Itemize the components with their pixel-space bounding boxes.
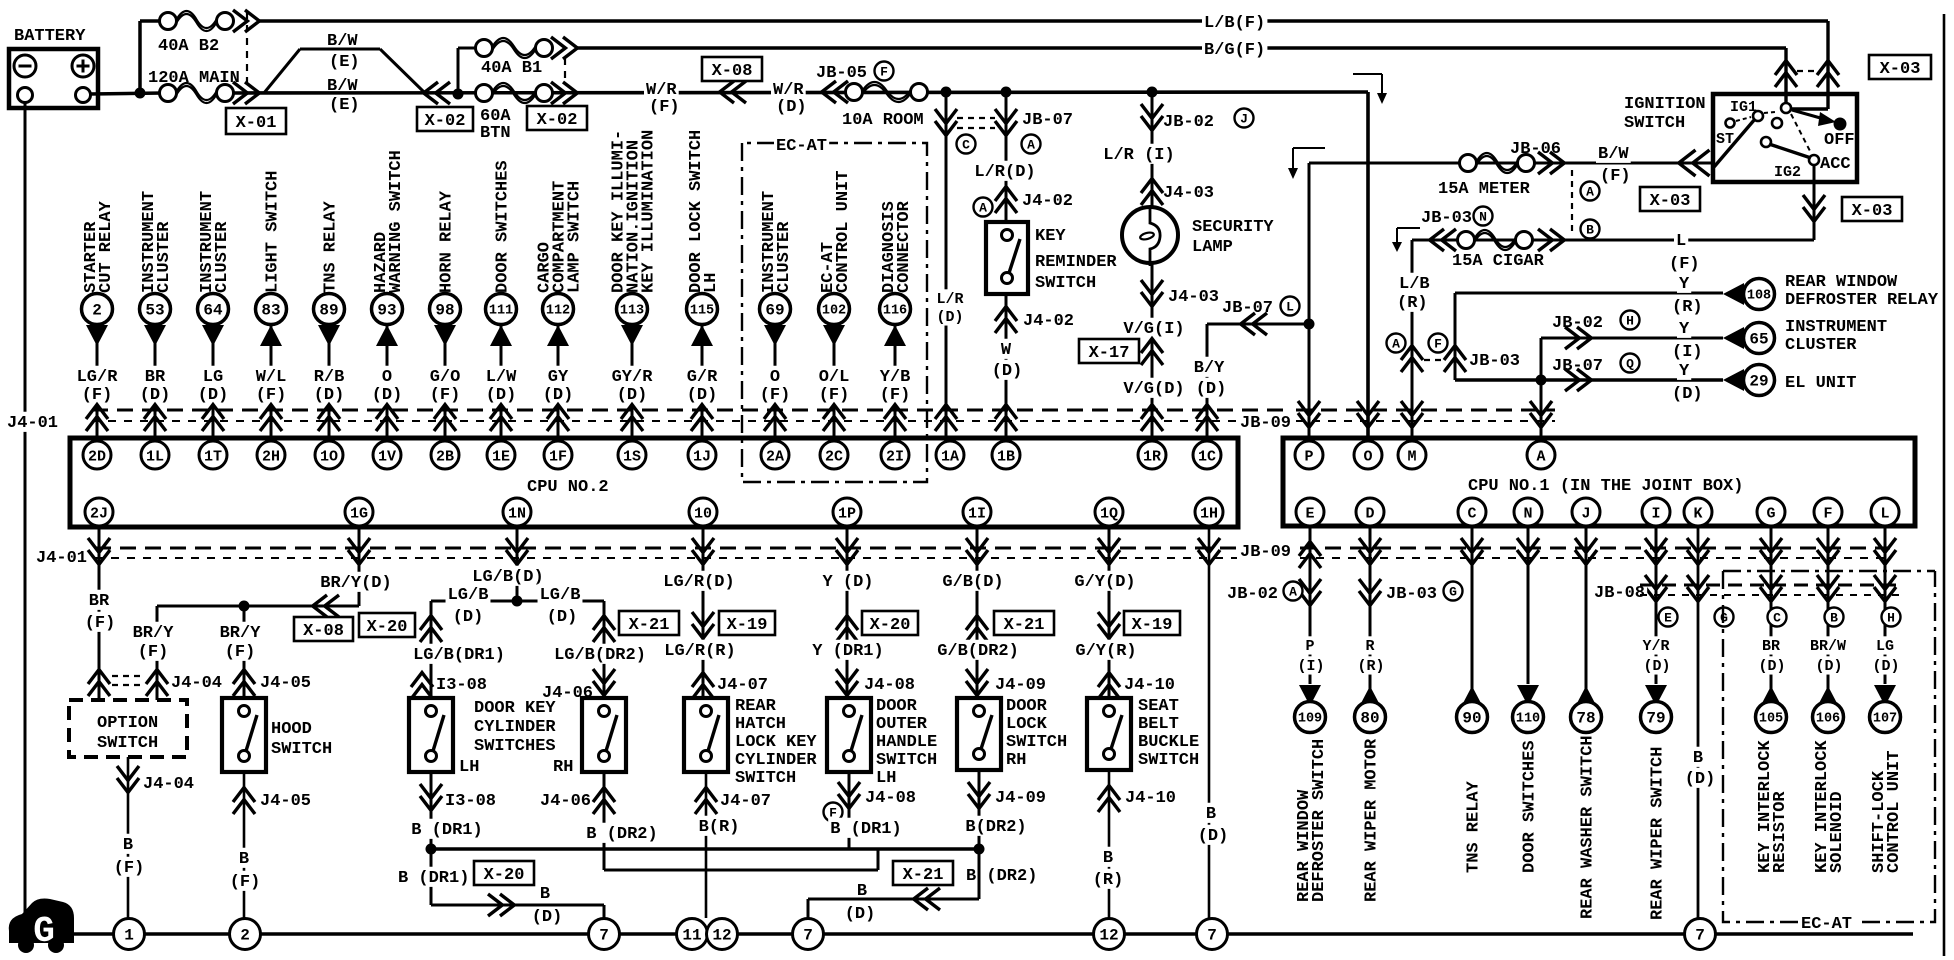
label L/B(F) bbox=[1202, 12, 1267, 32]
svg-text:BR/W: BR/W bbox=[1810, 638, 1846, 655]
connector J4-01 chevron col 116 bbox=[884, 405, 906, 419]
pin 1E CPU NO.2 bbox=[487, 441, 515, 469]
wire 1P column Y bbox=[846, 527, 849, 698]
wire 1A column bbox=[945, 92, 948, 441]
svg-text:G/Y(D): G/Y(D) bbox=[1074, 573, 1135, 592]
connector J4-01 row upper dashed bbox=[92, 409, 1290, 412]
key reminder switch bbox=[986, 222, 1028, 294]
wire column 2 bbox=[96, 324, 99, 438]
wire C column bbox=[1471, 527, 1474, 706]
label R (R) bbox=[1363, 636, 1376, 654]
wire riser A-B bbox=[877, 849, 880, 870]
ground node 7 bbox=[1197, 919, 1228, 950]
connector J4-06 chevron upper bbox=[593, 669, 615, 683]
svg-text:REAR WASHER SWITCH: REAR WASHER SWITCH bbox=[1578, 735, 1597, 919]
connector JB-07 chevron 1B bbox=[995, 109, 1017, 123]
label G/B(DR2) bbox=[935, 640, 1021, 660]
svg-text:KEY: KEY bbox=[1035, 227, 1066, 246]
connector JB-08 chevron L bbox=[1874, 575, 1896, 589]
connector J4-08 chevron lower bbox=[848, 772, 851, 849]
svg-text:B/W: B/W bbox=[1598, 145, 1629, 164]
connector JB-09 chevron bbox=[1530, 401, 1552, 415]
svg-text:80: 80 bbox=[1360, 710, 1379, 728]
connector JB-09 chevron J bbox=[1575, 538, 1597, 552]
connector JB-09 row lower dashed bbox=[1300, 547, 1890, 550]
svg-text:G/B(DR2): G/B(DR2) bbox=[937, 642, 1019, 661]
connector J4-03 chevron lower bbox=[1141, 280, 1163, 294]
connector X-21 chevrons bottom bbox=[914, 888, 928, 910]
svg-text:J4-07: J4-07 bbox=[717, 676, 768, 695]
pin I CPU NO.1 bbox=[1642, 498, 1670, 526]
connector X-02 label left bbox=[417, 107, 473, 131]
connector JB-09 chevron C bbox=[1461, 538, 1483, 552]
svg-text:CONTROL UNIT: CONTROL UNIT bbox=[834, 171, 853, 293]
svg-text:L/R(D): L/R(D) bbox=[974, 163, 1035, 182]
svg-text:1L: 1L bbox=[146, 448, 164, 465]
svg-text:(R): (R) bbox=[1397, 294, 1428, 313]
connector X-02 chevrons left bbox=[424, 82, 438, 104]
svg-text:W: W bbox=[1001, 341, 1012, 360]
svg-text:40A B2: 40A B2 bbox=[158, 37, 219, 56]
svg-text:LG/B: LG/B bbox=[540, 586, 581, 605]
svg-text:12: 12 bbox=[1099, 927, 1118, 945]
svg-text:A: A bbox=[1586, 185, 1594, 200]
pin 1I CPU NO.2 bbox=[963, 498, 991, 526]
svg-text:TNS RELAY: TNS RELAY bbox=[1464, 780, 1483, 873]
pin 1G CPU NO.2 bbox=[345, 498, 373, 526]
pin 1A CPU NO.2 bbox=[936, 441, 964, 469]
connector JB-09 chevron bbox=[1298, 401, 1320, 415]
connector X-03 chevrons ACC bbox=[1803, 195, 1825, 209]
svg-text:LG/B(DR1): LG/B(DR1) bbox=[413, 646, 505, 665]
connector JB-02 H chevrons bbox=[1565, 327, 1579, 349]
svg-text:L: L bbox=[1676, 232, 1686, 251]
svg-text:X-03: X-03 bbox=[1650, 192, 1691, 211]
ground node 7 bbox=[1685, 919, 1716, 950]
svg-text:DOOR SWITCHES: DOOR SWITCHES bbox=[493, 160, 512, 293]
svg-text:J4-09: J4-09 bbox=[995, 676, 1046, 695]
svg-text:X-21: X-21 bbox=[629, 616, 670, 635]
wire K column bbox=[1697, 527, 1700, 918]
svg-text:E: E bbox=[1664, 611, 1672, 626]
node P column JB-07 bbox=[1304, 319, 1315, 330]
wire riser JB-03 to defroster row bbox=[1454, 293, 1457, 380]
component 79 rear wiper switch bbox=[1641, 702, 1672, 733]
connector JB-03 G chevron bbox=[1359, 579, 1381, 593]
svg-text:WARNING SWITCH: WARNING SWITCH bbox=[387, 150, 406, 293]
svg-text:JB-08: JB-08 bbox=[1594, 584, 1645, 603]
EC-AT dashed box upper bbox=[742, 143, 927, 482]
svg-text:KEY ILLUMINATION: KEY ILLUMINATION bbox=[639, 130, 658, 293]
wire G column bbox=[1770, 527, 1773, 706]
svg-text:JB-03: JB-03 bbox=[1469, 352, 1520, 371]
wire option to ground bus bbox=[127, 790, 130, 918]
pin 2C CPU NO.2 bbox=[820, 441, 848, 469]
svg-text:(D): (D) bbox=[453, 608, 484, 627]
svg-text:X-01: X-01 bbox=[236, 114, 277, 133]
svg-text:X-21: X-21 bbox=[903, 866, 944, 885]
svg-text:CLUSTER: CLUSTER bbox=[213, 221, 232, 293]
connector X-21 chevron 2 bbox=[966, 616, 988, 630]
svg-text:83: 83 bbox=[261, 302, 280, 320]
pin J CPU NO.1 bbox=[1572, 498, 1600, 526]
wire column 64 bbox=[212, 324, 215, 438]
svg-text:E: E bbox=[1305, 505, 1314, 522]
connector J4-01 chevron bbox=[1141, 405, 1163, 419]
svg-text:B: B bbox=[1830, 611, 1838, 626]
svg-text:O: O bbox=[1363, 448, 1372, 465]
rear window defroster relay arrow bbox=[1723, 283, 1744, 305]
connector X-08 chevrons bbox=[720, 81, 734, 103]
connector X-19 label bbox=[719, 611, 775, 635]
pin 1T CPU NO.2 bbox=[199, 441, 227, 469]
svg-text:X-21: X-21 bbox=[1004, 616, 1045, 635]
pin 1C CPU NO.2 bbox=[1193, 441, 1221, 469]
svg-text:Y (D): Y (D) bbox=[822, 573, 873, 592]
svg-text:Y: Y bbox=[1679, 362, 1690, 381]
wire column 69 bbox=[774, 324, 777, 438]
svg-text:(F): (F) bbox=[649, 98, 680, 117]
wire 1Q column G/Y bbox=[1108, 527, 1111, 698]
connector J4-01 chevron 10 bbox=[692, 538, 714, 552]
svg-text:CPU NO.2: CPU NO.2 bbox=[527, 478, 609, 497]
connector JB-02 A chevron bbox=[1299, 579, 1321, 593]
svg-text:112: 112 bbox=[546, 304, 570, 319]
fuse 15A CIGAR bbox=[1458, 232, 1475, 249]
svg-text:X-19: X-19 bbox=[1132, 616, 1173, 635]
wire B/W(E) bypass diagonal down bbox=[380, 49, 426, 94]
svg-text:JB-09: JB-09 bbox=[1240, 414, 1291, 433]
label L (F) bbox=[1674, 230, 1688, 250]
svg-text:106: 106 bbox=[1816, 712, 1840, 727]
svg-text:EC-AT: EC-AT bbox=[776, 137, 827, 156]
wire 1B column bbox=[1005, 92, 1008, 222]
connector JB-09 chevron N bbox=[1517, 538, 1539, 552]
connector J4-01 chevron bbox=[935, 405, 957, 419]
component 90 tns relay bbox=[1457, 702, 1488, 733]
svg-text:A: A bbox=[1536, 448, 1545, 465]
connector J4-10 chevron upper bbox=[1098, 673, 1120, 687]
connector J4-01 chevron 1I bbox=[966, 538, 988, 552]
label W/R (F) bbox=[644, 79, 679, 99]
svg-text:J4-02: J4-02 bbox=[1023, 312, 1074, 331]
svg-text:DEFROSTER SWITCH: DEFROSTER SWITCH bbox=[1310, 739, 1329, 902]
connector J4-01 chevron col 64 bbox=[202, 405, 224, 419]
wire E column bbox=[1309, 527, 1312, 684]
connector JB-07 chevron 1A bbox=[935, 109, 957, 123]
pin 1O CPU NO.2 bbox=[315, 441, 343, 469]
connector J4-01 chevron col 69 bbox=[764, 405, 786, 419]
door outer handle switch LH bbox=[827, 698, 871, 772]
CPU NO.2 box bbox=[70, 438, 1238, 527]
node B DR2 junction bbox=[974, 844, 985, 855]
svg-text:79: 79 bbox=[1646, 710, 1665, 728]
connector J4-03 chevron upper bbox=[1141, 179, 1163, 193]
ground node 12 bbox=[1094, 919, 1125, 950]
component 65 instrument cluster bbox=[1744, 323, 1775, 354]
svg-text:B: B bbox=[540, 885, 550, 904]
component 107 shift-lock control unit bbox=[1870, 702, 1901, 733]
connector X-03 chevrons top bbox=[1775, 61, 1797, 75]
svg-text:X-20: X-20 bbox=[484, 866, 525, 885]
connector X-20 label 3 bbox=[474, 861, 534, 885]
svg-text:LIGHT SWITCH: LIGHT SWITCH bbox=[263, 171, 282, 293]
connector J4-01 chevron bbox=[995, 405, 1017, 419]
connector JB-09 chevron bbox=[1357, 401, 1379, 415]
svg-text:(D): (D) bbox=[1872, 658, 1899, 675]
connector J4-01 chevron col 115 bbox=[691, 405, 713, 419]
svg-text:F: F bbox=[1434, 337, 1442, 352]
svg-text:78: 78 bbox=[1576, 710, 1595, 728]
door key cylinder switch RH bbox=[582, 698, 626, 772]
svg-text:X-20: X-20 bbox=[870, 616, 911, 635]
svg-text:89: 89 bbox=[319, 302, 338, 320]
svg-text:G: G bbox=[1449, 585, 1457, 600]
pin 1F CPU NO.2 bbox=[544, 441, 572, 469]
svg-text:7: 7 bbox=[803, 927, 813, 945]
svg-text:L/B(F): L/B(F) bbox=[1204, 14, 1265, 33]
connector JB-09 chevron G bbox=[1760, 538, 1782, 552]
wire D column bbox=[1369, 527, 1372, 706]
pin 2D CPU NO.2 bbox=[83, 441, 111, 469]
connector X-03 label 3 bbox=[1640, 187, 1700, 211]
wire L column bbox=[1884, 527, 1887, 684]
svg-text:B(DR2): B(DR2) bbox=[965, 818, 1026, 837]
svg-text:INSTRUMENT: INSTRUMENT bbox=[1785, 318, 1887, 337]
connector cigar chevrons right bbox=[1538, 229, 1552, 251]
svg-text:J4-10: J4-10 bbox=[1124, 676, 1175, 695]
connector JB-08 chevron I bbox=[1645, 575, 1667, 589]
svg-text:B (DR1): B (DR1) bbox=[398, 869, 469, 888]
rear washer switch arrow bbox=[1575, 686, 1597, 707]
ignition switch contacts bbox=[1726, 119, 1735, 128]
wire column 111 bbox=[500, 324, 503, 438]
connector JB-09 chevron I bbox=[1645, 538, 1667, 552]
svg-text:F: F bbox=[880, 65, 888, 80]
node BR/Y hood junction bbox=[239, 601, 250, 612]
svg-text:(D): (D) bbox=[532, 908, 563, 927]
svg-text:BR: BR bbox=[89, 592, 110, 611]
key interlock resistor arrow bbox=[1760, 686, 1782, 707]
ground node 1 bbox=[114, 919, 145, 950]
wire J column bbox=[1585, 527, 1588, 706]
wire lock RH drop bbox=[978, 849, 981, 899]
connector J4-07 chevron upper bbox=[692, 673, 714, 687]
connector J4-05 chevron lower bbox=[243, 772, 246, 800]
svg-text:LOCK: LOCK bbox=[1006, 715, 1048, 734]
label B (DR1) bottom bbox=[396, 867, 472, 887]
svg-text:(I): (I) bbox=[1297, 658, 1324, 675]
svg-text:(I): (I) bbox=[1672, 343, 1703, 362]
svg-text:1S: 1S bbox=[623, 448, 641, 465]
connector X-19 chevron 2 bbox=[1098, 612, 1120, 626]
svg-text:HATCH: HATCH bbox=[735, 715, 786, 734]
svg-text:B (DR1): B (DR1) bbox=[411, 821, 482, 840]
wire column 93 bbox=[386, 324, 389, 438]
pin 1P CPU NO.2 bbox=[833, 498, 861, 526]
pin 1H CPU NO.2 bbox=[1195, 498, 1223, 526]
node fuse B1 junction bbox=[453, 89, 464, 100]
component 78 rear washer switch bbox=[1571, 702, 1602, 733]
wire riser top corner bbox=[140, 19, 162, 23]
svg-text:L: L bbox=[1880, 505, 1889, 522]
ignition switch box bbox=[1713, 94, 1857, 182]
wire A column bbox=[1540, 380, 1543, 441]
svg-text:H: H bbox=[1887, 611, 1895, 626]
svg-text:OUTER: OUTER bbox=[876, 715, 928, 734]
svg-text:J4-06: J4-06 bbox=[540, 792, 591, 811]
wire battery negative rail bbox=[24, 102, 27, 918]
svg-text:P: P bbox=[1305, 638, 1314, 655]
label L/R (D) 1A bbox=[934, 289, 965, 307]
svg-text:N: N bbox=[1523, 505, 1532, 522]
pin E CPU NO.1 bbox=[1296, 498, 1324, 526]
svg-text:J4-04: J4-04 bbox=[143, 775, 194, 794]
svg-text:TNS RELAY: TNS RELAY bbox=[321, 200, 340, 293]
svg-text:DOOR: DOOR bbox=[1006, 697, 1048, 716]
svg-text:(D): (D) bbox=[1685, 770, 1716, 789]
svg-text:B: B bbox=[1586, 223, 1594, 238]
wire column 89 bbox=[328, 324, 331, 438]
connector X-17 chevron bbox=[1141, 339, 1163, 353]
connector JB-09 chevron F bbox=[1817, 538, 1839, 552]
pin 2A CPU NO.2 bbox=[761, 441, 789, 469]
wire ACC to L(F) line bbox=[1813, 165, 1816, 240]
svg-text:R: R bbox=[1365, 638, 1374, 655]
connector J4-01 chevron bbox=[1196, 405, 1218, 419]
connector X-20 label 2 bbox=[862, 611, 918, 635]
wire 1G column BR/Y bbox=[358, 527, 361, 606]
connector JB-06 chevrons bbox=[1538, 152, 1552, 174]
svg-text:115: 115 bbox=[690, 304, 714, 319]
CPU NO.1 box bbox=[1283, 438, 1915, 526]
svg-text:C: C bbox=[1467, 505, 1476, 522]
svg-text:J4-09: J4-09 bbox=[995, 789, 1046, 808]
connector I3-08 chevron lower bbox=[430, 772, 433, 849]
svg-text:(D): (D) bbox=[1672, 385, 1703, 404]
fuse 40A B1 bbox=[476, 40, 493, 57]
connector J4-01 chevron col 112 bbox=[547, 405, 569, 419]
component 108 rear window defroster relay bbox=[1744, 279, 1775, 310]
ground node 7 bbox=[793, 919, 824, 950]
svg-text:113: 113 bbox=[620, 304, 644, 319]
svg-text:L: L bbox=[1286, 300, 1294, 315]
svg-text:120A MAIN: 120A MAIN bbox=[148, 69, 240, 88]
wire P column bbox=[1308, 163, 1311, 441]
svg-text:(R): (R) bbox=[1357, 658, 1384, 675]
label Y (DR1) bbox=[810, 640, 886, 660]
svg-text:111: 111 bbox=[489, 304, 513, 319]
svg-text:1R: 1R bbox=[1143, 448, 1161, 465]
svg-text:B: B bbox=[1693, 749, 1703, 768]
svg-text:105: 105 bbox=[1759, 712, 1783, 727]
connector X-20 label bbox=[359, 613, 415, 637]
wire JB-02 H row bbox=[1540, 338, 1543, 380]
wire B/W(E) bypass diagonal up bbox=[264, 49, 300, 93]
svg-text:I: I bbox=[1651, 505, 1660, 522]
svg-text:Y: Y bbox=[1679, 320, 1690, 339]
svg-text:LG: LG bbox=[1876, 638, 1894, 655]
rear wiper switch arrow bbox=[1645, 685, 1667, 706]
wire B/W meter line bbox=[1309, 162, 1713, 165]
label W/R (D) bbox=[771, 79, 806, 99]
label B (R) seat bbox=[1101, 847, 1115, 867]
connector X-21 label 2 bbox=[994, 611, 1054, 635]
svg-text:RH: RH bbox=[1006, 751, 1026, 770]
pin O CPU NO.1 bbox=[1354, 441, 1382, 469]
wire bus corner down to O pin bbox=[1366, 92, 1370, 441]
connector X-02 chevrons right bbox=[551, 37, 565, 59]
connector X-21 label bbox=[619, 611, 679, 635]
svg-text:1A: 1A bbox=[941, 448, 959, 465]
wire hood to ground bus bbox=[243, 800, 246, 918]
main bus wire from battery to right bbox=[234, 92, 1368, 93]
wire handle drop bbox=[848, 840, 851, 849]
svg-text:A: A bbox=[1027, 138, 1035, 153]
svg-text:JB-02: JB-02 bbox=[1227, 585, 1278, 604]
svg-text:116: 116 bbox=[883, 304, 907, 319]
svg-text:2B: 2B bbox=[436, 448, 454, 465]
svg-text:X-17: X-17 bbox=[1089, 344, 1130, 363]
svg-text:OFF: OFF bbox=[1824, 131, 1855, 150]
pin 1J CPU NO.2 bbox=[688, 441, 716, 469]
label LG (D) bbox=[1874, 636, 1896, 654]
wire LH drop bbox=[430, 849, 433, 905]
wire riser to 40A B1 bbox=[457, 48, 460, 94]
svg-text:2: 2 bbox=[92, 302, 102, 320]
pin P CPU NO.1 bbox=[1295, 441, 1323, 469]
svg-text:Q: Q bbox=[1626, 357, 1634, 372]
svg-text:1G: 1G bbox=[350, 505, 368, 522]
label V/G(D) bbox=[1121, 378, 1186, 398]
label B(R) hatch bbox=[697, 816, 742, 836]
svg-text:2A: 2A bbox=[766, 448, 784, 465]
node bus 1A bbox=[941, 87, 952, 98]
svg-text:J4-03: J4-03 bbox=[1163, 184, 1214, 203]
pin 1R CPU NO.2 bbox=[1138, 441, 1166, 469]
option switch dashed box bbox=[69, 700, 187, 757]
svg-text:7: 7 bbox=[599, 927, 609, 945]
connector J4-01 chevron col 53 bbox=[144, 405, 166, 419]
svg-text:HORN RELAY: HORN RELAY bbox=[437, 190, 456, 293]
svg-text:I3-08: I3-08 bbox=[445, 792, 496, 811]
svg-text:(D): (D) bbox=[1758, 658, 1785, 675]
svg-text:102: 102 bbox=[822, 304, 846, 319]
svg-text:B/W: B/W bbox=[327, 77, 358, 96]
svg-text:11: 11 bbox=[682, 927, 701, 945]
svg-text:BR: BR bbox=[1762, 638, 1780, 655]
wire I column bbox=[1655, 527, 1658, 684]
component 110 door switches bbox=[1513, 702, 1544, 733]
node battery junction bbox=[135, 88, 146, 99]
svg-text:L/R: L/R bbox=[936, 291, 963, 308]
connector J4-10 chevron lower bbox=[1108, 770, 1111, 918]
connector X-02 label right bbox=[527, 106, 587, 130]
connector A/B dashed link bbox=[1571, 170, 1573, 232]
wire column 83 bbox=[270, 324, 273, 438]
pin F CPU NO.1 bbox=[1814, 498, 1842, 526]
connector chevron 2J to option bbox=[88, 670, 110, 684]
svg-text:REAR WINDOW: REAR WINDOW bbox=[1785, 273, 1898, 292]
svg-text:B: B bbox=[239, 850, 249, 869]
label B (DR2) RH bbox=[584, 823, 660, 843]
svg-text:B/W: B/W bbox=[327, 32, 358, 51]
pin 2J CPU NO.2 bbox=[85, 498, 113, 526]
svg-text:69: 69 bbox=[765, 302, 784, 320]
svg-text:SWITCHES: SWITCHES bbox=[474, 737, 556, 756]
svg-text:1F: 1F bbox=[549, 448, 567, 465]
svg-text:(E): (E) bbox=[329, 53, 360, 72]
